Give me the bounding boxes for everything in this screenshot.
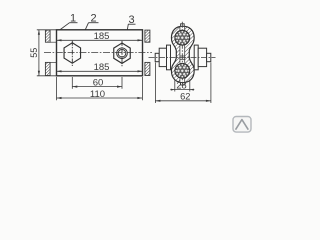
label 3 bbox=[124, 14, 135, 47]
watermark logo bbox=[233, 117, 251, 133]
bolt left: tip, nut, washer bbox=[155, 45, 170, 70]
hex nut left (item 2) bbox=[64, 41, 81, 66]
hex nut right with bolt end (item 3) bbox=[114, 41, 131, 66]
svg-text:185: 185 bbox=[94, 62, 110, 73]
bolt right: washer, nut, tip bbox=[194, 45, 211, 70]
dimension 55 (left, vertical) bbox=[29, 30, 56, 76]
svg-text:55: 55 bbox=[29, 48, 39, 58]
clamp body plate (front view) bbox=[57, 30, 143, 76]
front view horizontal centerline bbox=[44, 52, 152, 54]
conductor stub bottom-right bbox=[145, 62, 150, 75]
conductor stub top-left bbox=[45, 30, 56, 42]
dimension 28 (conductor dia) bbox=[170, 80, 194, 92]
side view horizontal centerline (bolt axis) bbox=[149, 56, 216, 58]
side view clamp section outline bbox=[171, 26, 194, 82]
label 1 bbox=[58, 13, 78, 32]
svg-text:110: 110 bbox=[90, 89, 105, 100]
dimension 62 (overall width) bbox=[155, 63, 211, 104]
rivet channel in waist bbox=[180, 27, 185, 82]
dimension 110 (body width) bbox=[57, 77, 143, 100]
dimension 60 (bolt spacing) bbox=[72, 77, 122, 89]
svg-text:28: 28 bbox=[176, 80, 186, 90]
label 2 bbox=[76, 13, 98, 50]
svg-text:185: 185 bbox=[94, 31, 110, 42]
conductor section bottom (stranded) bbox=[175, 63, 190, 78]
svg-text:60: 60 bbox=[93, 77, 104, 88]
dimension 185 top bbox=[57, 31, 143, 42]
conductor stub top-right bbox=[145, 30, 150, 42]
conductor stub bottom-left bbox=[45, 62, 56, 75]
rivet boss top bbox=[181, 24, 185, 27]
rivet boss bottom bbox=[181, 83, 185, 86]
svg-text:62: 62 bbox=[180, 92, 190, 102]
side view vertical centerline bbox=[181, 22, 183, 86]
conductor section top (stranded) bbox=[175, 30, 190, 45]
dimension 185 bottom bbox=[57, 62, 143, 73]
